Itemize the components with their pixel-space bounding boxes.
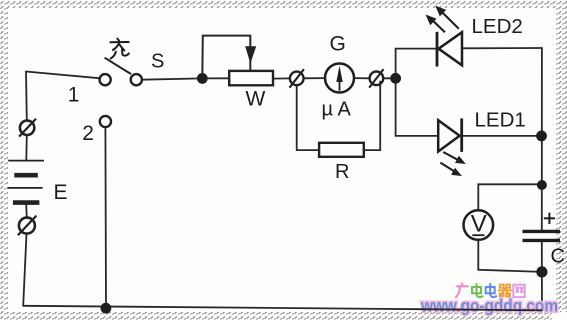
galvanometer G [325, 64, 354, 93]
wire right rail lower [541, 241, 543, 310]
resistor R [319, 143, 364, 157]
wire terminal-2 drop [104, 127, 107, 308]
svg-text:1: 1 [68, 84, 80, 107]
wire terminal to node B [383, 77, 395, 79]
voltmeter V [464, 210, 494, 240]
wire terminal X1 to battery [25, 135, 28, 160]
svg-text:LED1: LED1 [475, 109, 526, 132]
svg-text:2: 2 [82, 122, 94, 145]
switch contact 1 [100, 74, 111, 85]
switch pole contact [131, 74, 142, 85]
border hatch bottom [8, 312, 552, 320]
terminal right of meter (circle with slash) [369, 69, 383, 88]
wire bottom rail (left part) [23, 306, 420, 309]
wire right rail upper [541, 48, 543, 230]
border hatch top [0, 0, 567, 8]
switch contact 2 [100, 116, 111, 127]
LED2 emission arrows [426, 6, 459, 33]
watermark www.go-gddq.com [420, 296, 558, 316]
wire node B to LED2 [396, 48, 437, 50]
LED2 diode [437, 32, 462, 67]
wire node A to potentiometer [202, 77, 229, 79]
node bottom junction [101, 303, 112, 314]
wire terminal to galvanometer [304, 77, 326, 79]
svg-text:LED2: LED2 [472, 15, 523, 38]
svg-text:G: G [330, 33, 346, 56]
node B [390, 73, 401, 84]
wiper arrow [245, 46, 256, 63]
svg-text:C: C [551, 246, 565, 268]
wire wiper loop [202, 36, 250, 79]
label 充 [110, 39, 128, 59]
wire V branch bottom [478, 240, 542, 272]
svg-text:W: W [246, 88, 266, 111]
wire bypass right (resistor R up to rail) [364, 82, 380, 151]
wire W to left meter terminal [273, 77, 290, 79]
LED1 emission arrows [440, 152, 466, 176]
wire left rail lower [23, 234, 26, 306]
wire LED2 to right rail corner [462, 47, 542, 49]
battery E [8, 161, 44, 203]
border hatch left [0, 8, 8, 320]
terminal X2 (circle with slash) [18, 216, 37, 236]
wire bottom rail (right part, over watermark) [420, 309, 542, 310]
wire top-left rail [26, 72, 100, 79]
svg-text:µ A: µ A [322, 99, 352, 121]
wire LED1 to node C [462, 135, 542, 137]
label + polarity [544, 213, 555, 224]
wire V branch top [478, 184, 542, 210]
node C [536, 131, 547, 142]
svg-text:www.go-gddq.com: www.go-gddq.com [420, 296, 558, 316]
wire LED branch vertical [395, 49, 397, 136]
svg-text:S: S [151, 51, 164, 73]
terminal X1 (circle with slash) [19, 119, 36, 137]
capacitor C plates [523, 231, 561, 240]
wire galvanometer to right terminal [354, 77, 370, 79]
svg-text:R: R [335, 161, 349, 183]
switch arm [105, 58, 131, 74]
node A [197, 73, 208, 84]
wire left rail upper [25, 72, 28, 121]
node F (V / C bottom junction) [536, 266, 547, 277]
wire bypass left (terminal down to resistor R) [297, 85, 319, 150]
terminal left of meter (circle with slash) [290, 69, 304, 88]
wire battery to terminal X2 [25, 205, 28, 218]
svg-text:V: V [471, 211, 487, 238]
wire node B to LED1 [396, 135, 438, 137]
border hatch right [556, 8, 567, 312]
node D [537, 180, 547, 190]
LED1 diode [438, 118, 462, 151]
potentiometer W body [229, 71, 273, 85]
watermark 广电电器网 [456, 283, 525, 297]
wire switch pole to node A [142, 78, 202, 79]
svg-text:E: E [54, 181, 68, 204]
